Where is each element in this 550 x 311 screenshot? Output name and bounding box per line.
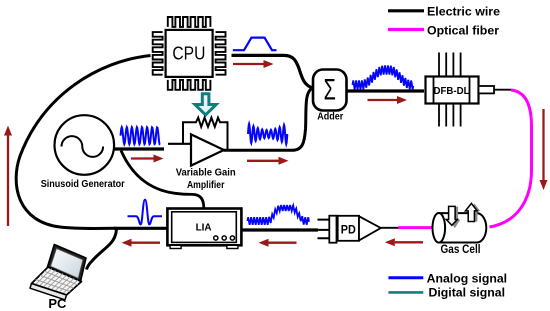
legend: analog signal sample xyxy=(388,276,423,279)
PC laptop front edge xyxy=(30,284,67,300)
signal: scan ramp trapezoid (CPU output) xyxy=(233,38,277,51)
svg-text:Digital signal: Digital signal xyxy=(429,286,506,300)
signal: transmitted signal (PD to LIA) xyxy=(247,205,309,225)
flow arrow: PD to LIA xyxy=(269,242,297,244)
gas cell left end cap xyxy=(433,213,446,243)
PD body xyxy=(338,216,359,241)
DFB-DL inner dividers xyxy=(434,77,470,104)
PC laptop lid xyxy=(47,245,86,282)
VGA amplifier triangle xyxy=(191,134,224,165)
flow arrow: gas cell to PD xyxy=(395,241,423,243)
LIA outer box xyxy=(167,209,241,246)
svg-text:CPU: CPU xyxy=(172,44,205,64)
flow arrow: LIA to PC xyxy=(132,242,161,244)
legend: digital signal sample xyxy=(388,291,423,294)
wire: VGA input xyxy=(168,143,191,145)
wire: big arc CPU to bottom junction xyxy=(16,56,150,229)
gas cell outlet arrow (up) xyxy=(465,203,480,221)
legend: optical fiber sample xyxy=(388,28,424,31)
flow arrow up (far left) xyxy=(7,136,9,227)
flow arrow: adder output xyxy=(368,99,398,101)
wire: junction down to PC xyxy=(87,229,117,270)
svg-text:PC: PC xyxy=(48,297,66,311)
PC laptop keyboard keys xyxy=(35,269,77,294)
wire: sinusoid generator output xyxy=(113,147,164,150)
PC laptop base xyxy=(32,267,82,295)
wire: adder output to DFB-DL xyxy=(347,89,424,92)
svg-text:Σ: Σ xyxy=(324,74,336,107)
optical fiber: gas cell to PD xyxy=(398,226,432,229)
optical fiber: DFB-DL to gas cell xyxy=(490,90,532,227)
svg-text:Variable Gain: Variable Gain xyxy=(176,166,236,178)
wire: CPU output curving down to adder input xyxy=(232,55,314,88)
LIA feet xyxy=(170,245,181,248)
wire: LIA output to PD xyxy=(241,228,318,231)
flow arrow down (right side) xyxy=(542,109,544,180)
CPU chip body xyxy=(166,30,213,77)
svg-text:Analog signal: Analog signal xyxy=(427,271,508,285)
DFB-DL output stub xyxy=(479,86,495,93)
svg-text:Gas Cell: Gas Cell xyxy=(441,244,481,256)
signal: demodulated harmonic peak (LIA to PC) xyxy=(128,200,163,225)
legend: electric wire sample xyxy=(388,9,424,12)
svg-text:Electric wire: Electric wire xyxy=(427,5,500,19)
svg-text:Amplifier: Amplifier xyxy=(187,179,225,191)
signal: amplified sine (VGA output) xyxy=(248,124,287,144)
DFB-DL top pins xyxy=(439,53,461,77)
sinusoid generator circle xyxy=(55,115,115,175)
LIA inner panel xyxy=(172,212,237,243)
wire: PD input stub xyxy=(381,227,399,229)
wire: DFB-DL pigtail xyxy=(494,89,511,91)
svg-text:Optical fiber: Optical fiber xyxy=(427,23,499,37)
signal: sine (generator output) xyxy=(121,127,161,144)
signal: ramp plus modulation (adder output) xyxy=(353,65,414,89)
PD cone xyxy=(359,216,381,240)
DFB-DL body xyxy=(426,77,479,104)
wire: generator to LIA reference input (curve) xyxy=(121,151,204,209)
gas cell cylinder body xyxy=(439,213,487,242)
svg-text:DFB-DL: DFB-DL xyxy=(434,86,470,97)
CPU chip pins xyxy=(153,17,226,90)
adder box xyxy=(313,70,347,111)
svg-text:PD: PD xyxy=(341,223,356,237)
gas cell inlet arrow (down) xyxy=(446,206,460,228)
flow arrow: VGA output xyxy=(247,160,279,162)
svg-text:Sinusoid Generator: Sinusoid Generator xyxy=(41,179,125,190)
flow arrow: generator output xyxy=(131,157,154,159)
sinusoid generator sine symbol xyxy=(62,136,104,157)
VGA feedback loop with resistor xyxy=(183,118,228,151)
wire: junction to LIA left input xyxy=(114,227,168,230)
PD mount plate xyxy=(329,216,336,243)
wire: VGA output curving up to adder input xyxy=(224,88,314,150)
adder sigma xyxy=(324,74,336,107)
PD pins xyxy=(318,220,330,239)
svg-text:Adder: Adder xyxy=(317,111,343,123)
DFB-DL bottom pins xyxy=(439,104,461,127)
flow arrow: CPU output xyxy=(233,63,264,65)
LIA knobs xyxy=(214,236,218,240)
svg-text:LIA: LIA xyxy=(196,222,212,234)
digital control arrow CPU to VGA xyxy=(195,94,216,115)
PC laptop screen xyxy=(51,249,83,279)
